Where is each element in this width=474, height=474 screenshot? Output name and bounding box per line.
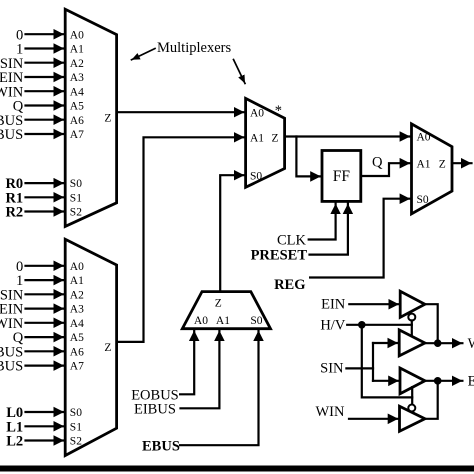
wire B2 output to W xyxy=(425,342,463,344)
svg-text:H/V: H/V xyxy=(320,317,346,333)
wire U2 input A2 xyxy=(26,293,65,295)
arrow to U3 xyxy=(234,60,246,84)
wire U2 input A6 xyxy=(26,350,65,352)
B1 enable bubble xyxy=(408,314,415,321)
wire SIN split vertical xyxy=(372,343,374,381)
wire U1 input A1 xyxy=(26,47,65,49)
wire U2 input A3 xyxy=(26,308,65,310)
buffer B3 body xyxy=(400,368,425,394)
wire H/V vertical xyxy=(362,325,412,398)
wire U4.Z output xyxy=(452,162,472,164)
svg-text:Z: Z xyxy=(104,112,111,124)
multiplexer U5 body (output-up mux) xyxy=(182,292,270,329)
B4 enable bubble xyxy=(408,405,415,412)
wire U5.Z to U3.S0 xyxy=(220,175,244,291)
wire U2 input A4 xyxy=(26,322,65,324)
wire EIBUS to U5.A1 xyxy=(181,331,220,409)
junction W xyxy=(434,339,442,347)
svg-text:A4: A4 xyxy=(70,318,84,330)
wire U1 select S2 xyxy=(26,210,65,212)
wire EBUS to U5.S0 xyxy=(180,331,258,446)
wire B3 output to E xyxy=(425,380,463,382)
wire U1 input A5 xyxy=(26,104,65,106)
svg-text:S0: S0 xyxy=(250,170,262,182)
svg-text:A7: A7 xyxy=(70,361,84,373)
svg-text:EBUS: EBUS xyxy=(142,438,180,454)
wire REG to U4.S0 xyxy=(310,199,410,278)
svg-text:A5: A5 xyxy=(70,101,84,113)
multiplexer U3 body xyxy=(246,98,285,187)
svg-text:A4: A4 xyxy=(70,86,84,98)
buffer B1 body xyxy=(400,291,425,317)
wire U1 input A3 xyxy=(26,76,65,78)
svg-text:S0: S0 xyxy=(70,407,82,419)
multiplexer U1 body xyxy=(65,9,116,226)
multiplexer U4 body xyxy=(412,124,453,214)
bottom rule bar xyxy=(0,466,474,472)
wire SIN to B3 xyxy=(373,380,399,382)
svg-text:R2: R2 xyxy=(5,205,23,221)
wire U1 select S1 xyxy=(26,196,65,198)
svg-text:E: E xyxy=(468,374,474,390)
svg-text:EIN: EIN xyxy=(321,297,346,313)
wire U1 input A4 xyxy=(26,90,65,92)
wire FF.Q to U4.A1 xyxy=(361,163,410,176)
wire SIN to B2/B3 xyxy=(346,367,373,369)
wire B4 output xyxy=(425,381,438,419)
wire U2 input A7 xyxy=(26,365,65,367)
svg-text:REG: REG xyxy=(274,277,305,293)
svg-text:WIN: WIN xyxy=(316,404,346,420)
svg-text:CLK: CLK xyxy=(277,233,307,249)
svg-text:Multiplexers: Multiplexers xyxy=(157,40,231,56)
svg-text:FF: FF xyxy=(333,168,351,185)
wire U2 input A5 xyxy=(26,336,65,338)
buffer B4 body xyxy=(400,406,425,431)
wire SIN to B2 xyxy=(373,342,398,344)
svg-text:PRESET: PRESET xyxy=(251,248,308,264)
svg-text:A0: A0 xyxy=(70,29,84,41)
svg-text:*: * xyxy=(275,103,282,119)
svg-text:S0: S0 xyxy=(417,194,429,206)
svg-text:A6: A6 xyxy=(70,346,84,358)
wire EIN to B1 xyxy=(349,303,399,305)
svg-text:S2: S2 xyxy=(70,207,82,219)
wire U1.Z to U3.A0 xyxy=(117,111,245,113)
wire B3/B4 enable link xyxy=(411,387,413,404)
wire branch down to FF input xyxy=(296,137,320,177)
svg-text:A0: A0 xyxy=(250,108,264,120)
arrow to U1 xyxy=(132,49,156,60)
svg-text:S0: S0 xyxy=(70,178,82,190)
wire CLK to FF xyxy=(309,204,336,240)
wire H/V net xyxy=(347,324,412,326)
svg-text:S2: S2 xyxy=(70,436,82,448)
svg-text:L2: L2 xyxy=(6,434,23,450)
wire WIN to B4 xyxy=(349,418,398,420)
svg-text:A1: A1 xyxy=(250,132,264,144)
wire EOBUS to U5.A0 xyxy=(180,331,194,395)
svg-text:A3: A3 xyxy=(70,304,84,316)
svg-text:W: W xyxy=(468,336,474,352)
wire U2 select S1 xyxy=(26,425,65,427)
flip-flop FF body xyxy=(322,151,361,202)
wire U1 input A0 xyxy=(26,33,65,35)
wire U1 input A7 xyxy=(26,133,65,135)
svg-text:A0: A0 xyxy=(70,261,84,273)
wire B1/B2 enable link xyxy=(411,320,413,335)
svg-text:SIN: SIN xyxy=(320,360,344,376)
svg-text:IBUS: IBUS xyxy=(0,359,23,375)
wire U2 select S2 xyxy=(26,439,65,441)
svg-text:EIBUS: EIBUS xyxy=(134,401,176,417)
svg-text:A7: A7 xyxy=(70,129,84,141)
svg-text:IBUS: IBUS xyxy=(0,127,23,143)
wire U2 input A1 xyxy=(26,279,65,281)
svg-text:A3: A3 xyxy=(70,72,84,84)
junction E xyxy=(434,377,442,385)
svg-text:A1: A1 xyxy=(70,275,84,287)
svg-text:A1: A1 xyxy=(216,315,230,327)
svg-text:A0: A0 xyxy=(417,132,431,144)
svg-text:Z: Z xyxy=(104,342,111,354)
wire U3.Z to FF.D and U4.A0 xyxy=(285,135,411,137)
svg-text:A1: A1 xyxy=(70,44,84,56)
svg-text:A0: A0 xyxy=(194,315,208,327)
svg-text:S1: S1 xyxy=(70,192,82,204)
wire B1 output xyxy=(425,304,438,343)
wire U1 input A2 xyxy=(26,62,65,64)
svg-text:A6: A6 xyxy=(70,115,84,127)
svg-text:Q: Q xyxy=(372,155,383,171)
wire PRESET to FF xyxy=(310,204,348,255)
svg-text:S0: S0 xyxy=(250,315,262,327)
svg-text:Z: Z xyxy=(215,298,222,310)
wire U2 input A0 xyxy=(26,265,65,267)
svg-text:A2: A2 xyxy=(70,58,84,70)
buffer B2 body xyxy=(399,330,425,356)
wire U2 select S0 xyxy=(26,411,65,413)
wire U2.Z to U3.A1 xyxy=(117,137,245,342)
wire U1 input A6 xyxy=(26,119,65,121)
svg-text:Z: Z xyxy=(439,158,446,170)
svg-text:A5: A5 xyxy=(70,332,84,344)
svg-text:A1: A1 xyxy=(417,158,431,170)
svg-text:Z: Z xyxy=(272,132,279,144)
junction H/V xyxy=(358,321,366,329)
svg-text:S1: S1 xyxy=(70,421,82,433)
multiplexer U2 body xyxy=(65,239,116,455)
svg-text:A2: A2 xyxy=(70,289,84,301)
wire U1 select S0 xyxy=(26,182,65,184)
